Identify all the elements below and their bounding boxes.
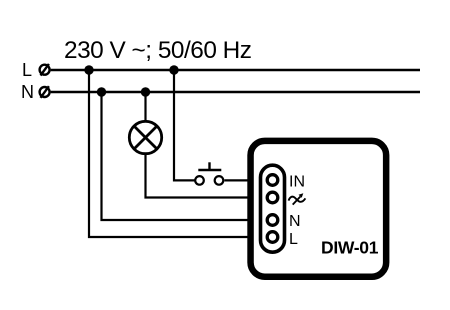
svg-text:N: N bbox=[21, 82, 34, 102]
wire L bus to device terminal L bbox=[89, 70, 266, 237]
terminal N (supply clamp) bbox=[40, 86, 50, 98]
wire lamp to device dimmed output terminal bbox=[146, 154, 267, 198]
svg-text:230 V ~; 50/60 Hz: 230 V ~; 50/60 Hz bbox=[64, 37, 252, 64]
terminal pin 4 L bbox=[267, 232, 278, 243]
terminal block of DIW-01 bbox=[261, 165, 285, 252]
junction on L bus at x=89 bbox=[84, 65, 93, 74]
junction on L bus at x=174 bbox=[169, 65, 178, 74]
wire N bus to lamp bbox=[144, 92, 146, 122]
svg-text:L: L bbox=[289, 231, 298, 248]
wire N bus to device terminal N bbox=[102, 92, 267, 220]
svg-text:L: L bbox=[22, 60, 32, 80]
junction on N bus at x=101.5 bbox=[97, 87, 106, 96]
terminal L (supply clamp) bbox=[40, 64, 50, 76]
junction on N bus at x=145.5 bbox=[141, 87, 150, 96]
wire L bus to push button S1 bbox=[174, 70, 195, 180]
pin label dimmer output symbol bbox=[289, 193, 306, 204]
lamp E1 bbox=[129, 121, 161, 153]
svg-text:IN: IN bbox=[289, 174, 305, 191]
device DIW-01 enclosure bbox=[251, 141, 387, 277]
wire push button S1 to device terminal IN bbox=[225, 179, 267, 181]
svg-text:DIW-01: DIW-01 bbox=[321, 238, 379, 258]
wire N bus bbox=[51, 91, 420, 93]
terminal pin 1 IN bbox=[267, 175, 278, 186]
push button S1 bbox=[195, 162, 223, 184]
terminal pin 2 dimmed output bbox=[267, 192, 278, 203]
terminal pin 3 N bbox=[267, 215, 278, 226]
svg-text:N: N bbox=[289, 213, 301, 230]
wire L bus bbox=[51, 69, 420, 71]
